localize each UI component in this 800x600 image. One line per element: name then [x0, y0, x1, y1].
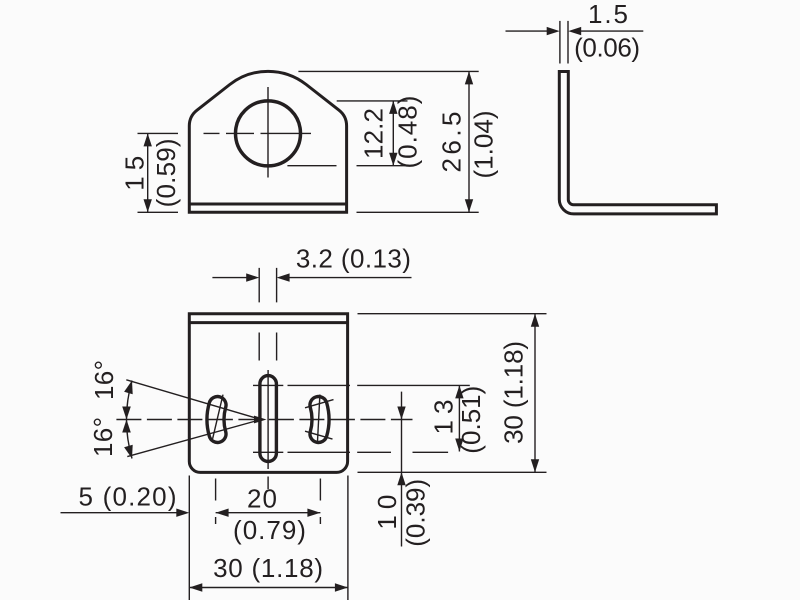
dim 20 arrow right: [307, 509, 320, 517]
right slot centerline: [317, 395, 320, 444]
dim 1.5 line left: [506, 30, 548, 32]
dim 12.2 arrow down: [389, 153, 397, 166]
dim 3.2 arrow right: [246, 273, 259, 281]
svg-text:12.2: 12.2: [359, 107, 389, 159]
dim 26.5 extension bottom: [357, 211, 479, 213]
dim 12.2 extension top: [337, 100, 408, 102]
angle dim upper arc arrow top: [124, 381, 133, 395]
left edge extension: [188, 476, 190, 600]
dim 1.5 extension left: [559, 21, 561, 64]
side view outline: [559, 72, 716, 214]
left slot centerline: [213, 395, 223, 439]
svg-text:30 (1.18): 30 (1.18): [499, 340, 529, 444]
svg-text:5 (0.20): 5 (0.20): [79, 482, 178, 512]
dim 13 line: [458, 385, 460, 451]
dim 12.2 line: [392, 101, 394, 166]
dim 13 extension bottom: [253, 451, 448, 453]
svg-text:(0.48): (0.48): [393, 95, 423, 169]
angle dim upper arc arrow bottom: [122, 407, 131, 420]
angle dim lower arc: [127, 420, 133, 459]
angle dim upper arc: [127, 381, 133, 420]
hole horizontal centerline: [204, 132, 312, 134]
front view hole: [236, 101, 301, 166]
dim 26.5 line: [468, 71, 470, 212]
central slot: [260, 376, 277, 462]
svg-text:(0.39): (0.39): [401, 478, 431, 547]
svg-text:26.5: 26.5: [437, 111, 467, 173]
dim 13 arrow down: [455, 439, 463, 452]
svg-text:20: 20: [247, 484, 278, 514]
central slot extension: [267, 477, 269, 490]
right slot center extension: [319, 479, 321, 525]
dim 1.5 arrow right: [547, 27, 560, 35]
dim 3.2 line left: [212, 277, 246, 279]
left slot: [207, 397, 226, 443]
dim 30 bottom arrow right: [335, 583, 348, 591]
pivot arrow: [254, 416, 267, 424]
dim 30 right extension top: [358, 313, 547, 315]
dim 15 arrow down: [144, 199, 152, 212]
svg-text:16°: 16°: [88, 416, 118, 457]
dim 30 right line: [534, 314, 536, 473]
dim 15 extension bottom: [138, 211, 179, 213]
dim 3.2 extension right: [276, 268, 278, 361]
dim 12.2 arrow up: [389, 101, 397, 114]
bottom view bend line: [189, 321, 347, 324]
dim 15 arrow up: [144, 133, 152, 146]
dim 1.5 arrow left: [568, 27, 581, 35]
dim 26.5 arrow up: [465, 71, 473, 84]
dim 13 extension top: [253, 384, 470, 386]
dim 3.2 extension left: [258, 268, 260, 361]
radial line upper left: [126, 380, 261, 420]
dim 15 extension top: [138, 132, 179, 134]
svg-text:(0.51): (0.51): [456, 385, 486, 454]
dim 5 arrow right: [176, 509, 189, 517]
right edge extension: [347, 476, 349, 600]
svg-text:15: 15: [120, 155, 150, 191]
svg-text:3.2 (0.13): 3.2 (0.13): [296, 244, 412, 274]
radial line upper right: [305, 400, 334, 408]
left slot center extension: [215, 479, 217, 525]
central slot centerline: [267, 370, 269, 469]
dim 5 line: [61, 512, 178, 514]
front view bend line: [189, 203, 346, 206]
dim 1.5 line right: [581, 30, 643, 32]
dim 10 line: [401, 392, 403, 547]
svg-text:(0.59): (0.59): [151, 137, 181, 207]
dim 3.2 arrow left: [277, 273, 290, 281]
dim 10 arrow up: [397, 472, 405, 485]
dim 13 arrow up: [455, 385, 463, 398]
svg-text:1.5: 1.5: [588, 0, 629, 29]
dim 30 bottom line: [189, 587, 348, 589]
angle dim lower arc arrow bottom: [124, 445, 133, 459]
front view outline: [189, 71, 346, 212]
dim 30 right extension bottom: [358, 471, 547, 473]
svg-text:(1.04): (1.04): [469, 110, 499, 179]
svg-text:10: 10: [372, 494, 402, 530]
svg-text:13: 13: [429, 399, 459, 435]
bottom view outline: [189, 314, 347, 473]
svg-text:16°: 16°: [89, 359, 119, 400]
radial line lower left: [127, 420, 261, 457]
horizontal centerline: [116, 419, 412, 421]
dim 1.5 extension right: [567, 21, 569, 64]
dim 12.2 extension bottom: [287, 165, 407, 167]
dim 20 line: [216, 512, 321, 514]
dim 15 line: [147, 133, 149, 212]
svg-text:(0.79): (0.79): [233, 515, 307, 545]
right slot: [310, 397, 329, 443]
dim 30 right arrow down: [531, 459, 539, 472]
radial line lower right: [305, 431, 333, 439]
dim 30 right arrow up: [531, 314, 539, 327]
dim 26.5 extension top: [298, 70, 478, 72]
hole vertical centerline: [267, 87, 269, 178]
dim 10 arrow down: [397, 407, 405, 420]
svg-text:30 (1.18): 30 (1.18): [213, 553, 324, 583]
dim 20 arrow left: [216, 509, 229, 517]
dim 3.2 line right: [290, 277, 412, 279]
angle dim lower arc arrow top: [122, 420, 131, 433]
dim 30 bottom arrow left: [189, 583, 202, 591]
svg-text:(0.06): (0.06): [574, 33, 641, 63]
dim 26.5 arrow down: [465, 199, 473, 212]
